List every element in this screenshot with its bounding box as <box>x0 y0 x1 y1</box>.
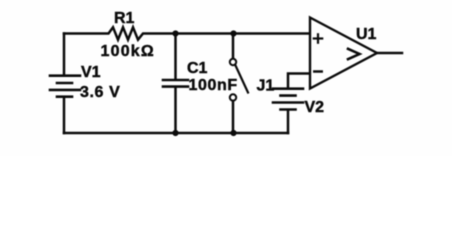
wire C1 branch upper <box>174 34 177 80</box>
svg-text:100nF: 100nF <box>189 77 238 94</box>
svg-text:V2: V2 <box>305 99 325 116</box>
capacitor C1 <box>163 80 188 87</box>
op-amp minus input marking <box>314 70 321 73</box>
wire top rail with resistor zigzag <box>64 27 310 39</box>
svg-text:U1: U1 <box>356 26 377 43</box>
op-amp comparator symbol <box>348 49 360 59</box>
node junction dot top C1 <box>172 30 178 36</box>
wire left rail upper <box>63 34 66 75</box>
wire J1 branch upper <box>232 34 235 59</box>
wire J1 branch lower <box>232 101 235 133</box>
switch J1 <box>230 59 248 101</box>
svg-text:100kΩ: 100kΩ <box>101 43 155 60</box>
battery V1 <box>50 76 80 97</box>
wire output <box>377 52 402 55</box>
op-amp U1 triangle <box>310 18 377 89</box>
node junction dot bottom J1 <box>230 130 236 136</box>
svg-text:R1: R1 <box>114 10 135 27</box>
wire bottom rail <box>64 132 288 135</box>
svg-text:J1: J1 <box>257 78 275 95</box>
battery V2 <box>273 89 303 110</box>
svg-text:V1: V1 <box>81 64 101 81</box>
wire op-amp minus input to V2 <box>288 74 310 88</box>
wire left rail lower <box>63 97 66 133</box>
svg-text:3.6 V: 3.6 V <box>80 84 120 101</box>
wire V2 to bottom rail <box>287 110 290 133</box>
node junction dot bottom C1 <box>172 130 178 136</box>
wire C1 branch lower <box>174 87 177 133</box>
node junction dot top J1 <box>230 30 236 36</box>
op-amp plus input marking <box>314 34 322 42</box>
svg-text:C1: C1 <box>187 60 208 77</box>
